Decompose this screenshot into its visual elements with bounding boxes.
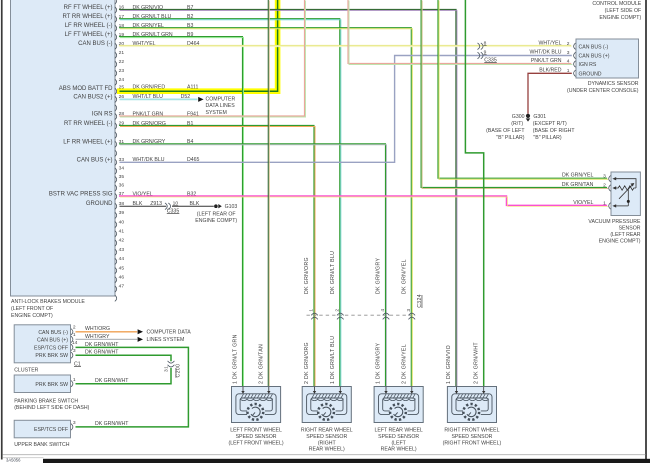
svg-text:47: 47: [119, 284, 125, 290]
svg-text:45: 45: [119, 265, 125, 271]
svg-text:41: 41: [119, 229, 125, 235]
right front wheel sensor glyph: [452, 394, 492, 420]
right front wheel sensor pin arrows: [455, 387, 486, 394]
svg-text:ABS MOD BATT FD: ABS MOD BATT FD: [59, 86, 113, 92]
svg-text:DK GRN/LT BLU: DK GRN/LT BLU: [330, 251, 336, 294]
parking brake switch caption: [14, 398, 89, 411]
svg-text:1: 1: [73, 377, 76, 383]
svg-text:CAN BUS2 (+): CAN BUS2 (+): [73, 94, 112, 100]
svg-text:(LEFT REAR OF: (LEFT REAR OF: [197, 211, 236, 217]
wire WHT/DK BLU D465 pin33 to dynamics sensor: [120, 56, 572, 163]
ABS module pin brackets: [115, 0, 117, 301]
svg-text:3: 3: [603, 173, 606, 179]
left rear wheel speed sensor box: [374, 387, 423, 423]
svg-text:2: 2: [335, 309, 341, 312]
svg-text:43: 43: [119, 247, 125, 253]
svg-text:DYNAMICS SENSOR: DYNAMICS SENSOR: [588, 81, 639, 87]
svg-text:G300: G300: [512, 114, 525, 120]
svg-text:DK GRN/TAN: DK GRN/TAN: [562, 182, 594, 188]
svg-text:SYSTEM: SYSTEM: [206, 110, 227, 116]
connector C324 halves pin 1: [309, 309, 318, 320]
wire WHT/GRY cluster CAN BUS (+): [76, 338, 138, 340]
wire DK GRN/LT GRN B9 pin19 to left front sensor: [119, 37, 244, 388]
left front wheel caption: [228, 428, 283, 447]
svg-text:3: 3: [73, 420, 76, 426]
svg-text:LEFT REAR WHEEL: LEFT REAR WHEEL: [374, 428, 422, 434]
svg-text:WHT/ORG: WHT/ORG: [85, 326, 110, 332]
svg-text:PARKING BRAKE SWITCH: PARKING BRAKE SWITCH: [14, 398, 78, 404]
svg-text:ENGINE COMPT): ENGINE COMPT): [11, 313, 53, 319]
svg-text:(LEFT FRONT OF: (LEFT FRONT OF: [11, 306, 53, 312]
ABS module wire labels and circuit ids: [133, 5, 200, 207]
svg-text:CAN BUS (+): CAN BUS (+): [579, 54, 610, 60]
svg-text:DATA LINES: DATA LINES: [206, 103, 236, 109]
left front wheel sensor glyph: [236, 394, 276, 420]
svg-text:COMPUTER DATA: COMPUTER DATA: [147, 330, 192, 336]
svg-text:(LEFT REAR: (LEFT REAR: [610, 232, 640, 238]
connector C335 pin 9 on WHT/DK BLU: [478, 50, 487, 59]
svg-text:RT RR WHEEL (+): RT RR WHEEL (+): [62, 14, 112, 20]
svg-text:DK GRN/WHT: DK GRN/WHT: [95, 421, 129, 427]
wire WHT/ORG cluster CAN BUS (-): [76, 331, 138, 333]
left rear wheel sensor pin arrows: [384, 387, 413, 394]
window frame right edge: [645, 0, 647, 463]
cluster wire labels: [85, 326, 119, 355]
svg-text:31: 31: [163, 366, 169, 372]
svg-text:COMPUTER: COMPUTER: [206, 96, 236, 102]
ABS module pin numbers: [119, 5, 125, 290]
svg-text:14: 14: [72, 340, 78, 346]
svg-text:(BEHIND LEFT SIDE OF DASH): (BEHIND LEFT SIDE OF DASH): [14, 405, 89, 411]
right rear wheel caption: [301, 428, 353, 453]
computer data lines system label: [206, 96, 236, 115]
svg-text:"B" PILLAR): "B" PILLAR): [533, 135, 561, 141]
wire DK GRN/WHT cluster PRK BRK SW to parking brake switch: [76, 355, 172, 361]
wire DK GRN/WHT cluster ESP/TCS OFF to upper bank switch: [76, 347, 189, 427]
parking brake switch pin bracket: [71, 381, 73, 387]
connector C335 label (ground): [167, 208, 180, 214]
svg-text:BSTR VAC PRESS SIG: BSTR VAC PRESS SIG: [49, 192, 113, 198]
svg-text:DK GRN/ORG: DK GRN/ORG: [304, 257, 310, 294]
footer separator line: [3, 456, 44, 459]
svg-text:DK GRN/YEL: DK GRN/YEL: [562, 173, 594, 179]
right rear wheel sensor glyph: [307, 394, 347, 420]
left rear wheel sensor glyph: [379, 394, 419, 420]
svg-text:SPEED SENSOR: SPEED SENSOR: [378, 434, 419, 440]
svg-text:22: 22: [119, 59, 125, 65]
svg-text:ESP/TCS OFF: ESP/TCS OFF: [34, 345, 68, 351]
parking brake switch box: [14, 375, 70, 393]
dynamics sensor wire labels: [530, 40, 562, 73]
svg-text:2: 2: [73, 325, 76, 331]
svg-text:1 DK GRN/LT GRN: 1 DK GRN/LT GRN: [233, 334, 239, 384]
svg-text:GROUND: GROUND: [579, 71, 602, 77]
svg-text:IGN RS: IGN RS: [92, 112, 113, 118]
vacuum pressure sensor wire labels: [562, 173, 594, 206]
upper bank switch pin bracket: [71, 424, 73, 430]
svg-text:2: 2: [567, 41, 570, 47]
dynamics sensor caption: [567, 81, 639, 94]
svg-text:SENSOR: SENSOR: [619, 226, 641, 232]
svg-text:LF RR WHEEL (+): LF RR WHEEL (+): [63, 139, 112, 145]
vacuum pressure sensor internal symbol: [612, 177, 636, 208]
svg-text:(RIGHT FRONT WHEEL): (RIGHT FRONT WHEEL): [443, 440, 502, 446]
svg-text:ENGINE COMPT): ENGINE COMPT): [195, 218, 237, 224]
svg-text:2: 2: [603, 183, 606, 189]
ABS module pin function labels: [49, 5, 113, 207]
dynamics sensor box: [576, 39, 639, 78]
svg-text:DK GRN/YEL: DK GRN/YEL: [402, 259, 408, 294]
wire VIO/YEL B32 pin37 to vacuum pressure sensor: [119, 196, 608, 206]
svg-text:CAN BUS (-): CAN BUS (-): [78, 41, 112, 47]
dynamics sensor pin numbers: [567, 41, 570, 74]
left rear wheel caption: [374, 428, 422, 453]
wire DK GRN/WHT control module to right front sensor pin2: [465, 0, 483, 387]
svg-text:ENGINE COMPT): ENGINE COMPT): [599, 15, 641, 21]
svg-text:4: 4: [567, 59, 570, 65]
wire DK GRN/RED A111 pin25 to control module (highlighted): [120, 0, 278, 91]
ground G300/G301 labels: [486, 114, 575, 141]
svg-text:35: 35: [119, 174, 125, 180]
connector C324 label: [417, 294, 423, 308]
right front wheel speed sensor box: [447, 387, 496, 423]
cluster pin numbers: [72, 325, 78, 354]
svg-text:PRK BRK SW: PRK BRK SW: [35, 382, 68, 388]
svg-text:2 DK GRN/WHT: 2 DK GRN/WHT: [473, 342, 479, 384]
vacuum pressure sensor pin brackets: [609, 176, 611, 210]
svg-text:DK GRN/GRY: DK GRN/GRY: [376, 258, 382, 294]
upper bank switch box: [14, 420, 70, 438]
connector C200 label: [176, 364, 182, 378]
svg-text:4: 4: [380, 309, 386, 312]
bottom taskbar: [43, 459, 650, 463]
svg-text:LF FT WHEEL (+): LF FT WHEEL (+): [65, 32, 113, 38]
computer data lines arrow (ABS CAN BUS2): [198, 97, 203, 102]
wire DK GRN/GRY B4 pin31 to left rear sensor: [119, 144, 387, 388]
svg-text:WHT/DK BLU: WHT/DK BLU: [530, 50, 562, 56]
anti-lock brakes module box: [11, 0, 116, 296]
svg-text:1: 1: [567, 68, 570, 74]
svg-text:44: 44: [119, 256, 125, 262]
svg-text:CAN BUS (+): CAN BUS (+): [77, 157, 113, 163]
svg-text:34: 34: [119, 166, 125, 172]
svg-text:CAN BUS (+): CAN BUS (+): [37, 337, 68, 343]
svg-text:(LEFT FRONT WHEEL): (LEFT FRONT WHEEL): [228, 440, 283, 446]
svg-text:RIGHT REAR WHEEL: RIGHT REAR WHEEL: [301, 428, 353, 434]
anti-lock brakes module caption: [11, 299, 85, 319]
right rear wheel speed sensor box: [302, 387, 351, 423]
wire DK GRN/ORG B1 pin29 to right rear sensor: [119, 125, 315, 387]
rotated labels above C324: [304, 251, 407, 294]
svg-text:40: 40: [119, 219, 125, 225]
computer data lines arrows (cluster): [138, 329, 143, 342]
svg-text:1: 1: [603, 201, 606, 207]
svg-text:"B" PILLAR): "B" PILLAR): [496, 135, 524, 141]
svg-text:(BASE OF RIGHT: (BASE OF RIGHT: [533, 128, 576, 134]
svg-text:LEFT FRONT WHEEL: LEFT FRONT WHEEL: [230, 428, 282, 434]
svg-text:42: 42: [119, 238, 125, 244]
vacuum pressure sensor caption: [588, 219, 641, 245]
svg-text:2 DK GRN/ORG: 2 DK GRN/ORG: [304, 342, 310, 384]
svg-text:REAR WHEEL): REAR WHEEL): [309, 447, 345, 453]
svg-text:SPEED SENSOR: SPEED SENSOR: [236, 434, 277, 440]
svg-text:1: 1: [309, 309, 315, 312]
svg-text:CAN BUS (-): CAN BUS (-): [579, 44, 609, 50]
left front wheel speed sensor box: [232, 387, 281, 423]
svg-text:CLUSTER: CLUSTER: [14, 368, 38, 374]
svg-text:CAN BUS (-): CAN BUS (-): [38, 330, 68, 336]
svg-text:G103: G103: [225, 204, 238, 210]
svg-text:RIGHT FRONT WHEEL: RIGHT FRONT WHEEL: [444, 428, 499, 434]
wire DK GRN/YEL B3 pin18 to left rear sensor: [119, 28, 412, 388]
right rear wheel sensor pin arrows: [313, 387, 342, 394]
svg-text:SPEED SENSOR: SPEED SENSOR: [306, 434, 347, 440]
wire BLK Z913 pin38 ground segment: [120, 205, 167, 207]
connector C335 pin 10 on BLK ground wire: [165, 201, 178, 210]
wire DK GRN/TAN control module to left front sensor pin2: [268, 0, 269, 387]
wire DK GRN/WHT C200 to parking brake switch: [76, 368, 172, 384]
svg-text:(UNDER CENTER CONSOLE): (UNDER CENTER CONSOLE): [567, 88, 639, 94]
ground G103 symbol: [214, 204, 222, 208]
svg-text:BLK/RED: BLK/RED: [539, 68, 561, 74]
connector C324 dashed line: [307, 314, 415, 316]
svg-text:SPEED SENSOR: SPEED SENSOR: [451, 434, 492, 440]
svg-text:G301: G301: [533, 114, 546, 120]
svg-text:ESP/TCS OFF: ESP/TCS OFF: [34, 427, 68, 433]
svg-text:(RIGHT: (RIGHT: [318, 440, 337, 446]
right front wheel caption: [443, 428, 502, 447]
svg-text:IGN RS: IGN RS: [579, 62, 597, 68]
svg-text:(LEFT SIDE OF: (LEFT SIDE OF: [605, 8, 642, 14]
cluster box: [14, 325, 70, 363]
ground G103 labels: [195, 204, 237, 224]
svg-text:3: 3: [73, 348, 76, 354]
svg-text:ANTI-LOCK BRAKES MODULE: ANTI-LOCK BRAKES MODULE: [11, 299, 85, 305]
wire WHT/LT BLU D52 pin26 to data link arrow: [120, 98, 198, 100]
wire PNK/LT GRN control module to dynamics sensor IGN RS: [348, 0, 572, 65]
svg-text:1 DK GRN/LT BLU: 1 DK GRN/LT BLU: [330, 336, 336, 384]
wire DK GRN/TAN control module to vacuum sensor pin2: [421, 0, 608, 189]
connector C1 label: [74, 361, 81, 367]
vacuum pressure sensor box: [611, 172, 640, 216]
connector C324 halves pin 4: [380, 309, 389, 320]
wire DK GRN/LT BLU B2 pin17 to right rear sensor: [119, 19, 341, 388]
ground G300/G301 symbol: [526, 114, 531, 122]
wire BLK/RED dynamics sensor ground: [528, 73, 572, 114]
cluster pin labels inside: [34, 330, 68, 359]
svg-text:3: 3: [567, 50, 570, 56]
svg-text:RT RR WHEEL (-): RT RR WHEEL (-): [64, 121, 113, 127]
svg-text:3A5056: 3A5056: [6, 457, 21, 462]
control module caption: [592, 1, 641, 21]
svg-text:WHT/GRY: WHT/GRY: [85, 334, 110, 340]
svg-text:(EXCEPT R/T): (EXCEPT R/T): [533, 121, 567, 127]
svg-text:C200: C200: [176, 364, 182, 378]
svg-text:3: 3: [406, 309, 412, 312]
rotated labels at wheel speed sensors: [233, 334, 480, 384]
connector C324 halves pin 2: [335, 309, 344, 320]
wire PNK/LT GRN F941 pin28 to control module: [119, 0, 306, 117]
connector C324 halves pin 3: [406, 309, 415, 320]
connector C335 label (right): [484, 57, 497, 63]
svg-text:VACUUM PRESSURE: VACUUM PRESSURE: [588, 219, 641, 225]
svg-text:CONTROL MODULE: CONTROL MODULE: [592, 1, 641, 7]
svg-text:1: 1: [73, 332, 76, 338]
svg-text:(LEFT: (LEFT: [391, 440, 406, 446]
svg-text:2 DK GRN/YEL: 2 DK GRN/YEL: [402, 344, 408, 384]
svg-text:24: 24: [119, 77, 125, 83]
svg-text:VIO/YEL: VIO/YEL: [573, 200, 593, 206]
svg-text:WHT/YEL: WHT/YEL: [538, 40, 561, 46]
left front wheel sensor pin arrows: [241, 387, 270, 394]
svg-text:1 DK GRN/GRY: 1 DK GRN/GRY: [376, 343, 382, 384]
svg-text:(BASE OF LEFT: (BASE OF LEFT: [486, 128, 525, 134]
svg-text:23: 23: [119, 68, 125, 74]
wire DK GRN/YEL control module to vacuum sensor pin3: [438, 0, 608, 179]
svg-text:1 DK GRN/VIO: 1 DK GRN/VIO: [446, 345, 452, 384]
computer data lines label (cluster): [147, 330, 192, 344]
svg-text:GROUND: GROUND: [86, 201, 113, 207]
highlight band for DK GRN/RED wire A111: [117, 0, 278, 91]
svg-text:ENGINE COMPT): ENGINE COMPT): [599, 239, 641, 245]
svg-text:DK GRN/WHT: DK GRN/WHT: [95, 378, 129, 384]
svg-text:21: 21: [119, 50, 125, 56]
connector C335 pin 8 on WHT/YEL: [478, 40, 487, 49]
dynamics sensor pin labels inside: [579, 44, 610, 77]
svg-text:PRK BRK SW: PRK BRK SW: [35, 353, 68, 359]
svg-text:PNK/LT GRN: PNK/LT GRN: [531, 58, 562, 64]
svg-text:2 DK GRN/TAN: 2 DK GRN/TAN: [259, 344, 265, 384]
page bottom hairline: [3, 453, 646, 456]
wire WHT/YEL D464 pin20 to dynamics sensor: [119, 46, 572, 47]
svg-text:UPPER BANK SWITCH: UPPER BANK SWITCH: [14, 442, 70, 448]
vacuum pressure sensor pin numbers: [603, 173, 606, 206]
dynamics sensor pin brackets: [574, 43, 576, 77]
svg-text:46: 46: [119, 275, 125, 281]
svg-text:39: 39: [119, 210, 125, 216]
connector C200 halves: [168, 361, 175, 367]
window frame left edge: [1, 0, 3, 460]
svg-text:REAR WHEEL): REAR WHEEL): [381, 447, 417, 453]
svg-text:RF FT WHEEL (+): RF FT WHEEL (+): [64, 5, 113, 11]
cluster pin brackets: [71, 329, 73, 359]
svg-text:36: 36: [119, 183, 125, 189]
svg-text:LINES SYSTEM: LINES SYSTEM: [147, 337, 185, 343]
svg-text:LF RR WHEEL (-): LF RR WHEEL (-): [65, 23, 113, 29]
svg-text:(R/T): (R/T): [511, 121, 523, 127]
wire BLK ground to G103: [172, 205, 214, 207]
wire DK GRN/VIO B7 pin16 to right front sensor: [119, 9, 457, 387]
